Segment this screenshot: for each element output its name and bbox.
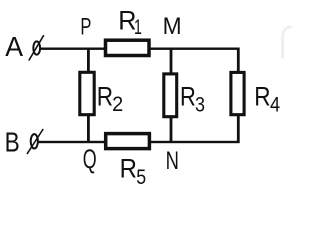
- wire M down to R3: [170, 48, 173, 74]
- terminal symbol A: [29, 35, 44, 60]
- svg-text:2: 2: [112, 93, 123, 116]
- svg-text:B: B: [5, 126, 20, 157]
- svg-text:R: R: [254, 81, 270, 111]
- svg-text:1: 1: [134, 16, 142, 39]
- resistor R4: [231, 72, 244, 114]
- wire R5 to bottom-right corner (node N junction): [151, 141, 240, 143]
- svg-text:3: 3: [195, 93, 205, 116]
- resistor R2: [80, 72, 94, 114]
- svg-text:P: P: [80, 13, 91, 40]
- wire R3 down to N junction: [170, 118, 173, 143]
- wire R4 down to bottom corner: [237, 115, 240, 143]
- resistor R1: [106, 40, 150, 55]
- svg-text:N: N: [166, 147, 179, 175]
- svg-text:5: 5: [136, 166, 146, 189]
- wire P down to R2: [87, 48, 90, 72]
- svg-text:M: M: [163, 13, 182, 40]
- faint artifact mark top-right: [283, 27, 292, 59]
- wire corner down to R4: [237, 48, 240, 73]
- svg-text:Q: Q: [83, 144, 97, 174]
- svg-text:A: A: [5, 31, 23, 62]
- wire B to R5 (node Q junction): [38, 141, 105, 143]
- resistor R5: [106, 134, 150, 149]
- terminal symbol B: [27, 129, 43, 154]
- svg-text:4: 4: [270, 93, 280, 116]
- resistor R3: [164, 74, 177, 117]
- svg-text:R: R: [180, 81, 196, 111]
- wire R1 to top-right corner: [151, 48, 240, 50]
- wire A to R1 (node P junction): [40, 48, 104, 50]
- svg-text:R: R: [97, 81, 113, 111]
- svg-text:R: R: [120, 153, 137, 183]
- wire R2 down to Q junction: [87, 116, 90, 143]
